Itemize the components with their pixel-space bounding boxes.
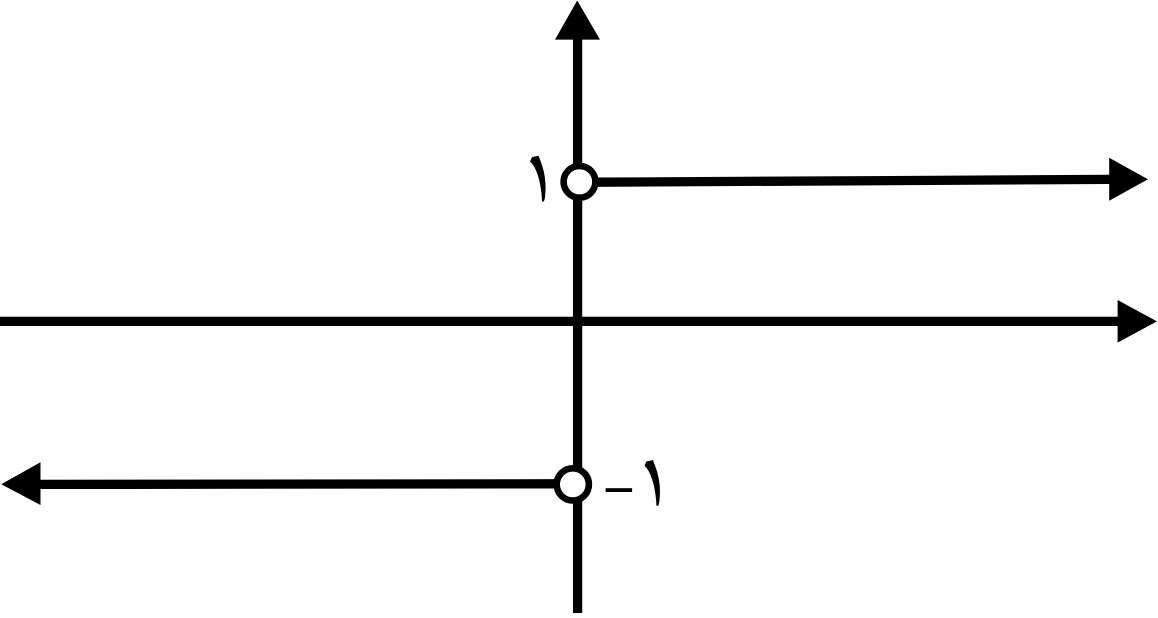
left arrowhead of ray y=-1 (1, 462, 40, 505)
label -1: Persian digit 1 (645, 460, 660, 506)
label -1: minus sign (606, 488, 633, 492)
label 1 (Persian digit) at y=1 (530, 156, 545, 202)
ray y=-1 for x<0 (39, 479, 557, 489)
y-axis top arrowhead (555, 1, 600, 40)
open circle at (0,1) (564, 166, 596, 198)
right arrowhead of ray y=1 (1109, 158, 1148, 201)
open circle at (0,-1) (557, 468, 589, 500)
x-axis horizontal line (0, 317, 1119, 326)
ray y=1 for x>0 (594, 179, 1110, 182)
y-axis vertical line (573, 34, 582, 613)
x-axis right arrowhead (1118, 300, 1157, 343)
